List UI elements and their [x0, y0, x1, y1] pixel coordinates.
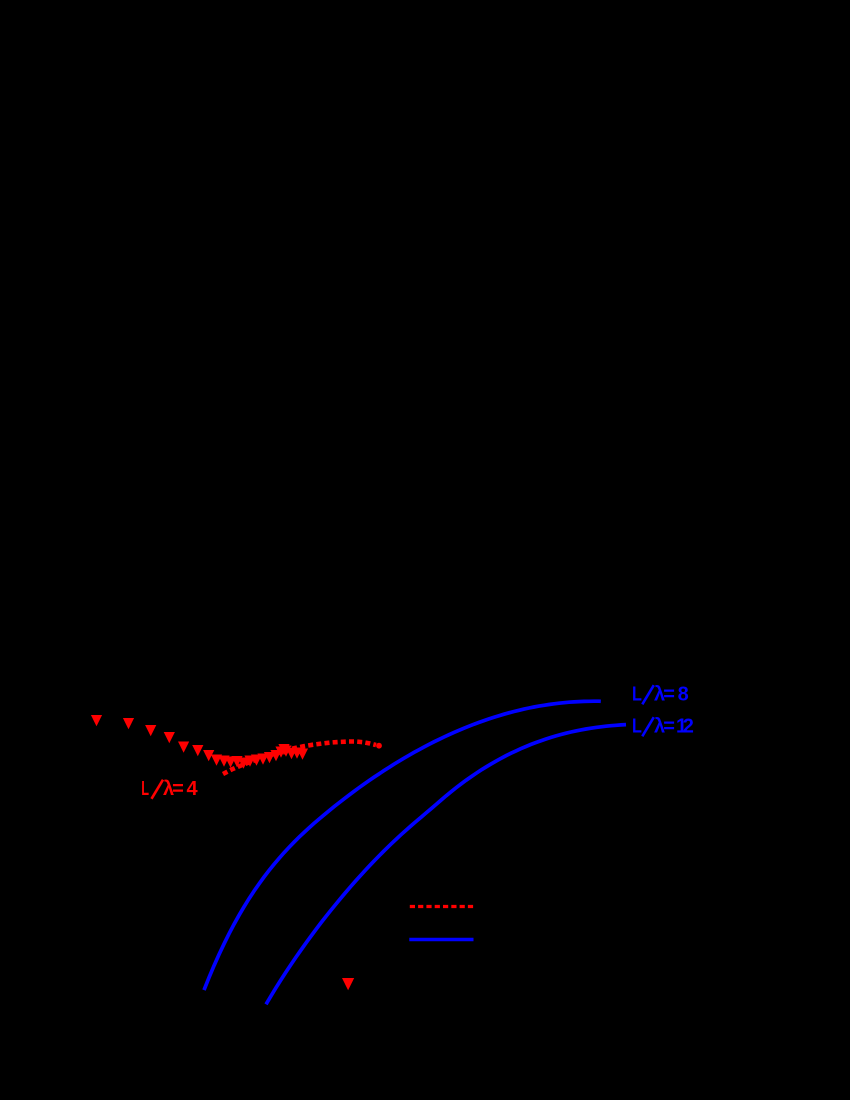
curve L/lambda=8 (blue solid) [204, 701, 601, 990]
svg-text:4: 4 [187, 778, 199, 800]
svg-text:L: L [632, 716, 642, 738]
curve L/lambda=12 (blue solid) [266, 725, 626, 1005]
svg-text:=: = [663, 716, 675, 738]
svg-text:=: = [172, 778, 184, 800]
svg-text:8: 8 [678, 684, 689, 706]
svg-text:L: L [141, 778, 149, 800]
svg-text:L: L [632, 684, 642, 706]
legend red triangle marker [342, 978, 354, 990]
legend dashed red line [410, 905, 473, 908]
svg-text:2: 2 [683, 716, 694, 738]
red triangle data markers [91, 715, 308, 769]
end dot of dotted curve [376, 743, 382, 749]
legend solid blue line [409, 938, 473, 942]
dotted red theory curve L/lambda=4 [223, 742, 376, 775]
svg-text:=: = [663, 684, 675, 706]
